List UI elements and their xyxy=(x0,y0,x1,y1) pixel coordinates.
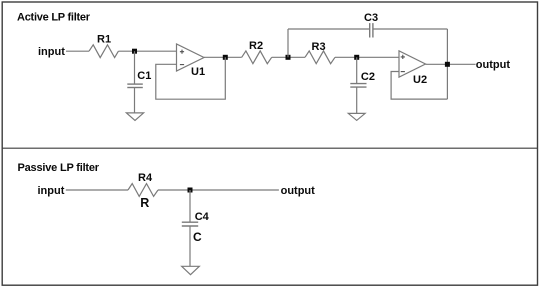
wire U1 feedback loop xyxy=(156,57,226,99)
wire U1 output to R2 xyxy=(204,56,242,58)
wire C3 left xyxy=(288,28,370,30)
wire R4 to output xyxy=(158,189,279,191)
node A junction xyxy=(132,49,137,54)
wire C4 to ground xyxy=(189,226,191,266)
svg-text:C2: C2 xyxy=(361,71,375,83)
wire input to R4 xyxy=(66,189,128,191)
pin + of U2 xyxy=(401,55,405,59)
wire C1 to ground xyxy=(134,88,136,113)
svg-text:C4: C4 xyxy=(195,211,210,223)
capacitor C3 xyxy=(369,23,371,37)
resistor R3 xyxy=(305,51,335,64)
wire R1 to U1 xyxy=(118,50,176,52)
capacitor C1 xyxy=(127,83,143,85)
resistor R4 xyxy=(128,184,158,197)
svg-text:input: input xyxy=(38,46,65,58)
ground (C2) xyxy=(348,113,365,120)
svg-text:U2: U2 xyxy=(413,74,427,86)
ground (C1) xyxy=(126,113,143,121)
svg-text:C3: C3 xyxy=(364,12,378,24)
node B (U1 output) xyxy=(223,55,228,60)
wire node D down xyxy=(356,57,358,83)
svg-text:input: input xyxy=(38,185,65,197)
wire U2 feedback bottom xyxy=(391,72,447,100)
pin - of U2 xyxy=(401,71,405,73)
pin + of U1 xyxy=(180,50,184,54)
op-amp U1 xyxy=(177,44,205,71)
wire node F down xyxy=(189,190,191,222)
wire C3 down to output node and feedback xyxy=(446,29,448,99)
node E (output node) xyxy=(445,62,450,67)
wire U2 output xyxy=(426,63,476,65)
pin - of U1 xyxy=(180,64,184,66)
wire R3 to U2 xyxy=(335,56,399,58)
capacitor C4 xyxy=(182,221,198,223)
svg-text:C1: C1 xyxy=(137,70,151,82)
resistor R2 xyxy=(242,51,272,64)
svg-text:R4: R4 xyxy=(138,172,153,184)
op-amp U2 xyxy=(399,51,426,77)
wire C2 to ground xyxy=(356,87,358,113)
wire C3 right xyxy=(373,28,448,30)
wire input to R1 xyxy=(66,50,89,52)
node F junction xyxy=(188,188,193,193)
section divider xyxy=(2,147,537,149)
svg-text:U1: U1 xyxy=(191,66,205,78)
resistor R1 xyxy=(89,45,118,58)
node C junction xyxy=(286,55,291,60)
node D junction xyxy=(354,55,359,60)
capacitor C2 xyxy=(350,83,366,85)
svg-text:Passive LP filter: Passive LP filter xyxy=(18,162,100,174)
ground (C4) xyxy=(182,266,200,274)
svg-text:R2: R2 xyxy=(249,40,263,52)
wire R2 to R3 xyxy=(272,56,305,58)
svg-text:output: output xyxy=(476,59,511,71)
wire node A down xyxy=(134,51,136,84)
wire node C up to C3 xyxy=(287,29,289,57)
svg-text:C: C xyxy=(193,230,202,244)
svg-text:R1: R1 xyxy=(97,34,111,46)
svg-text:R3: R3 xyxy=(312,41,326,53)
svg-text:output: output xyxy=(281,185,316,197)
svg-text:Active LP filter: Active LP filter xyxy=(17,11,91,23)
svg-text:R: R xyxy=(140,196,149,210)
